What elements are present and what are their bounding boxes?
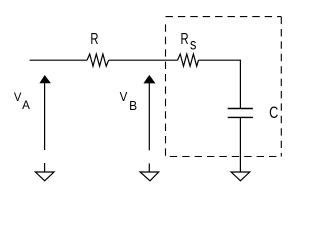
label VA: [14, 90, 30, 112]
dashed box enclosing Rs and C : top edge: [166, 16, 282, 18]
resistor R: [87, 54, 109, 66]
ground (below VB): [140, 172, 159, 181]
dashed box : left edge: [165, 24, 167, 155]
voltage arrow VA head: [39, 75, 51, 83]
wire: input net to resistor R: [30, 59, 87, 61]
voltage arrow VB shaft: [148, 83, 150, 150]
ground (below VA): [35, 172, 54, 181]
svg-text:C: C: [269, 104, 278, 122]
resistor Rs: [178, 54, 199, 66]
svg-text:R: R: [90, 29, 98, 48]
svg-text:V: V: [120, 90, 129, 105]
svg-text:R: R: [181, 29, 189, 48]
dashed box : bottom edge: [166, 156, 282, 158]
ground (below C): [231, 172, 250, 181]
dashed box : right edge: [280, 17, 282, 157]
wire: capacitor bottom plate to ground: [239, 117, 241, 172]
svg-text:s: s: [190, 36, 196, 54]
wire: node B between R and Rs: [109, 59, 178, 61]
svg-text:A: A: [22, 98, 30, 112]
ground stub (below VB): [148, 164, 150, 172]
voltage arrow VB head: [143, 75, 155, 84]
voltage arrow VA shaft: [44, 83, 46, 150]
svg-text:B: B: [129, 99, 137, 113]
label Rs: [181, 29, 197, 54]
label VB: [120, 90, 137, 113]
wire: Rs output to capacitor top plate: [199, 60, 241, 108]
svg-text:V: V: [14, 90, 22, 105]
ground stub (below VA): [44, 163, 46, 172]
capacitor C: [228, 109, 253, 118]
